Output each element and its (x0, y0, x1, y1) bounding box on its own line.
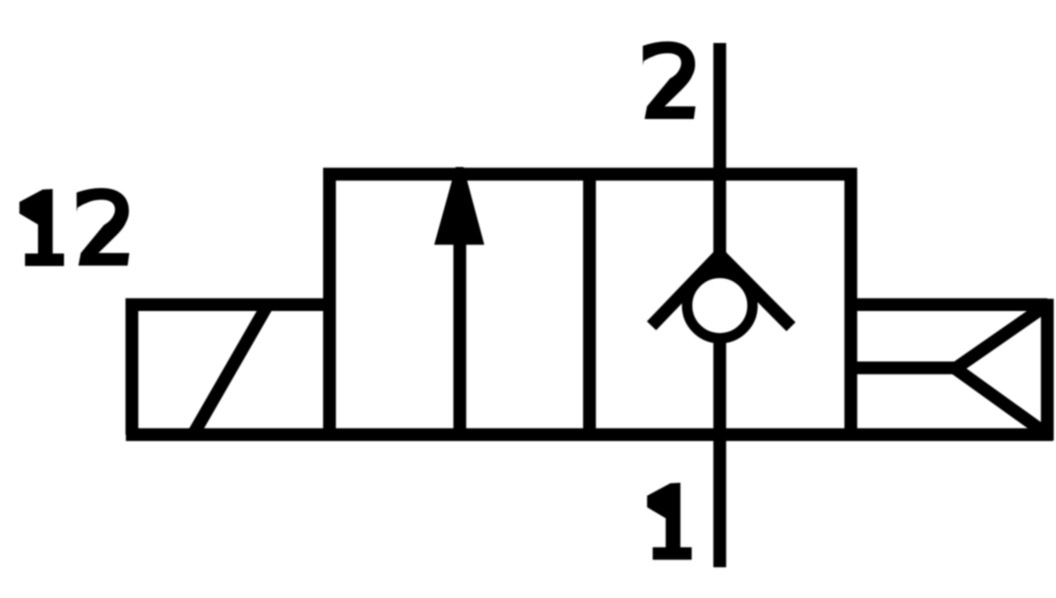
bottom rail (shared bottom edge) (126, 428, 1053, 441)
port 1 line (713, 337, 726, 567)
valve position divider (583, 174, 596, 434)
check valve seat V (right arm) (720, 255, 791, 327)
solenoid diagonal stroke (193, 305, 268, 435)
label 12 digit 2 (77, 188, 130, 266)
pilot triangle lower diagonal (955, 369, 1047, 435)
pilot element mid line (845, 361, 955, 374)
port 1 label (647, 483, 692, 560)
port 2 label (643, 41, 696, 119)
check valve seat junction fill (704, 250, 736, 270)
pilot triangle upper diagonal (955, 305, 1047, 369)
valve body frame (positions box: left edge, top edge, right edge) (330, 174, 851, 440)
flow arrow shaft (453, 243, 466, 440)
pilot element right edge (1041, 299, 1054, 441)
pilot element top line (845, 298, 1047, 311)
check valve seat V (left arm) (652, 255, 720, 326)
check valve ball (circle) (687, 273, 752, 338)
solenoid box (left edge and top edge) (132, 305, 330, 435)
port 2 line (713, 43, 726, 260)
flow arrow head (434, 167, 484, 245)
label 12 digit 1 (19, 189, 64, 266)
